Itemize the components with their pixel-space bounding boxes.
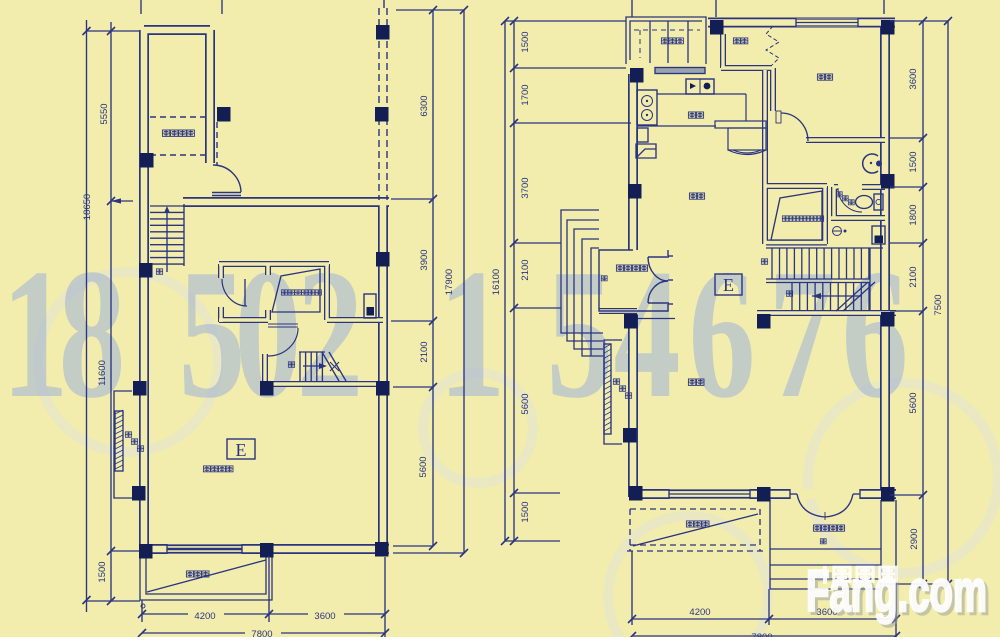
watermark swirls xyxy=(38,272,998,642)
air duct shaft xyxy=(114,391,132,498)
refrigerator xyxy=(715,94,766,155)
label 储藏空间 xyxy=(203,466,210,472)
wall elevator block interior xyxy=(219,264,389,384)
svg-text:2900: 2900 xyxy=(909,528,920,549)
air duct shaft right plan xyxy=(604,340,622,444)
label 下 stairs xyxy=(761,259,767,264)
label 采光井 top xyxy=(661,38,668,44)
svg-text:1500: 1500 xyxy=(97,561,108,582)
svg-text:E: E xyxy=(723,275,734,295)
label 电梯井走道预留 right xyxy=(782,216,788,221)
label 客厅 xyxy=(688,379,695,385)
door bedroom xyxy=(781,113,808,141)
svg-text:4200: 4200 xyxy=(194,611,215,622)
door D1 xyxy=(212,165,241,196)
svg-text:5600: 5600 xyxy=(908,392,919,413)
label 上 stairs xyxy=(786,291,792,296)
svg-text:8: 8 xyxy=(59,232,126,437)
svg-text:5600: 5600 xyxy=(520,393,531,414)
svg-text:6: 6 xyxy=(842,232,909,437)
svg-text:2100: 2100 xyxy=(419,341,430,362)
window bottom xyxy=(167,545,242,554)
svg-text:1500: 1500 xyxy=(520,501,531,522)
dimension left outer 18650 xyxy=(86,20,88,612)
svg-text:18650: 18650 xyxy=(82,194,93,220)
light well bottom right-plan xyxy=(627,509,763,551)
door vestibule xyxy=(222,279,247,306)
elevator polygon right plan xyxy=(771,191,822,240)
dimension left inner xyxy=(110,22,112,601)
svg-text:3600: 3600 xyxy=(314,611,335,622)
svg-text:1800: 1800 xyxy=(908,204,919,225)
svg-text:3700: 3700 xyxy=(520,177,531,198)
svg-text:1700: 1700 xyxy=(520,84,531,105)
svg-text:E: E xyxy=(236,440,247,460)
columns left plan xyxy=(132,25,390,559)
label 风管井 right xyxy=(613,379,619,384)
svg-text:5550: 5550 xyxy=(99,103,110,124)
svg-text:4: 4 xyxy=(614,232,681,437)
dimension bottom right plan xyxy=(632,500,896,642)
room tag E right xyxy=(715,274,742,295)
window band kitchen xyxy=(655,68,705,74)
dimension bottom left plan xyxy=(142,556,385,637)
door D2 xyxy=(268,328,298,356)
skylight dashed lines xyxy=(150,117,217,165)
window living room xyxy=(669,490,750,499)
dimension right of right plan xyxy=(922,21,924,584)
light well bottom left-plan xyxy=(140,555,272,600)
label 入口平台 bottom xyxy=(813,525,820,531)
entrance platform bottom right xyxy=(770,500,881,589)
step edge below platform xyxy=(635,318,675,320)
label 入口平台 mid xyxy=(616,265,623,271)
kitchen sink counter xyxy=(637,90,657,125)
kitchen counters xyxy=(636,94,746,158)
svg-text:2100: 2100 xyxy=(520,259,531,280)
fixture meter box xyxy=(364,294,376,318)
svg-text:6: 6 xyxy=(689,232,756,437)
label 风管井 xyxy=(125,432,131,437)
label 采光井 bottom right xyxy=(686,521,693,527)
watermark phone number 18502154676 xyxy=(2,232,909,437)
label 储藏 xyxy=(733,38,740,44)
dimension left of right plan xyxy=(504,21,506,541)
svg-text:3900: 3900 xyxy=(419,249,430,270)
svg-text:16100: 16100 xyxy=(491,269,502,295)
entrance platform mid xyxy=(599,250,673,311)
columns right plan xyxy=(623,20,895,502)
kitchen stove xyxy=(686,79,714,94)
svg-text:4200: 4200 xyxy=(689,607,710,618)
svg-text:6300: 6300 xyxy=(419,95,430,116)
label 餐厅 xyxy=(689,193,696,199)
svg-text:7500: 7500 xyxy=(933,294,944,315)
svg-text:1: 1 xyxy=(439,232,506,437)
logo 房天下 xyxy=(823,566,896,584)
svg-text:2100: 2100 xyxy=(908,266,919,287)
door bathroom xyxy=(838,188,862,212)
water heater xyxy=(872,226,885,244)
svg-text:1500: 1500 xyxy=(908,151,919,172)
svg-text:3600: 3600 xyxy=(908,68,919,89)
label 上 xyxy=(288,362,294,367)
stairs lower run xyxy=(299,352,346,381)
stairs upper run xyxy=(150,204,184,272)
toilet xyxy=(856,196,873,209)
wall right-plan exterior xyxy=(629,23,896,498)
light well top right-plan xyxy=(626,17,706,64)
elevator shaft polygon xyxy=(272,269,320,312)
logo fang.com xyxy=(806,559,990,627)
wall left-plan exterior xyxy=(139,30,389,551)
door french bottom xyxy=(790,489,860,499)
room tag E xyxy=(227,439,255,459)
label 卫生间 xyxy=(836,192,842,197)
svg-text:5600: 5600 xyxy=(418,456,429,477)
svg-text:1500: 1500 xyxy=(520,31,531,52)
wall right-plan interior xyxy=(599,34,896,313)
label 厨房 xyxy=(688,112,695,118)
dimension top stubs xyxy=(141,0,222,14)
entrance steps nested xyxy=(561,210,603,356)
svg-text:17900: 17900 xyxy=(444,269,455,295)
window bedroom top xyxy=(796,18,858,27)
svg-text:7800: 7800 xyxy=(751,632,772,637)
dimension top stubs right xyxy=(632,0,884,17)
closet zigzag xyxy=(766,26,779,65)
svg-text:11600: 11600 xyxy=(97,360,108,386)
label 采光井 xyxy=(186,571,193,577)
dimension right of left plan xyxy=(432,10,434,546)
label skylight 采光天窗 xyxy=(162,130,169,136)
label 卧室 xyxy=(817,74,824,80)
label 电梯井走道预留 xyxy=(281,290,287,295)
label 下 xyxy=(156,269,162,274)
floor drain xyxy=(833,227,842,236)
svg-text:7800: 7800 xyxy=(251,629,272,637)
basin xyxy=(863,154,878,173)
stairs main right plan xyxy=(766,248,883,311)
wall dashed boundary xyxy=(379,8,387,200)
